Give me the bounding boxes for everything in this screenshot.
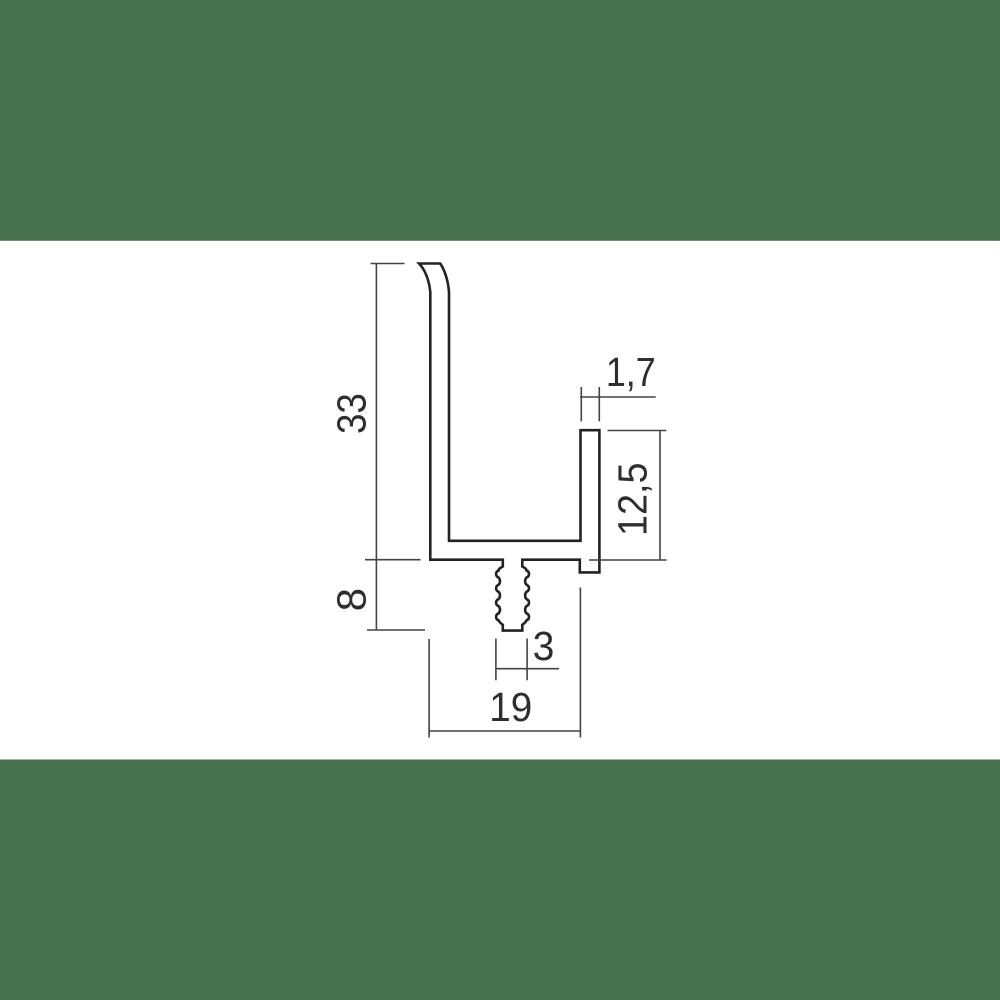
tick left of 1,7 [580,387,582,421]
tick between 33 and 8 [365,559,421,561]
tick right of 1,7 [598,387,600,421]
dimension line 19 horizontal [429,730,580,732]
dimension line 3 horizontal [496,668,559,670]
tick top of 12,5 [608,430,667,432]
svg-text:19: 19 [489,684,532,730]
dimension line 12,5 vertical [659,431,661,561]
tick left of 19 [428,639,430,738]
svg-text:8: 8 [329,588,375,611]
svg-text:1,7: 1,7 [606,349,656,395]
tick bottom of 12,5 [589,559,667,561]
svg-text:3: 3 [533,623,555,669]
tick top of 33 [371,263,405,265]
svg-text:12,5: 12,5 [610,463,656,537]
top green band [0,0,1000,241]
svg-text:33: 33 [328,393,374,434]
bottom green band [0,760,1000,1000]
tick right of 19 [579,588,581,738]
dimension line 33/8 vertical [375,264,377,631]
tick left of 3 [495,639,497,681]
dimension line 1,7 horizontal [580,396,656,398]
tick bottom of 8 [367,629,425,631]
tick right of 3 [526,639,528,681]
profile cross-section outline (wall with hooked top, base, right upstand bar, barbed spigot) [419,264,599,631]
